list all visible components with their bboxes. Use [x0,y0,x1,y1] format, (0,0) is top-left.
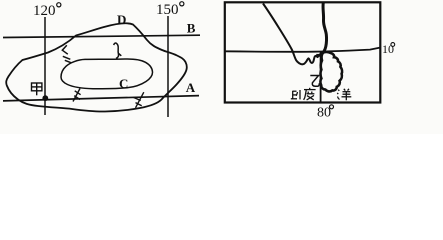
label du (Chinese char of Indian Ocean) [304,88,316,100]
Sri Lanka island [320,52,342,91]
label 120 degrees [33,3,61,19]
label yang (Chinese char of Indian Ocean) [337,89,351,101]
island outline (outer closed curve) [6,23,187,111]
parallel 10N line [225,48,380,52]
node dot at intersection of 120E meridian and lower parallel [42,95,48,101]
svg-text:10: 10 [382,42,394,56]
east coast of India (thick wavy line) [316,3,327,56]
svg-text:C: C [119,76,128,91]
label 80 degrees [317,105,334,121]
inner contour line [61,59,153,89]
svg-text:A: A [186,80,196,95]
svg-text:120: 120 [33,3,56,19]
meridian 80E [320,52,322,102]
label yin (Chinese char of Indian Ocean) [291,90,300,99]
svg-text:B: B [187,21,196,36]
river mark 3 (SW river with two forks) [73,89,81,102]
meridian 120E (left vertical line) [44,17,46,115]
river mark 1 (NW river with fork) [62,45,71,63]
upper parallel line (B) [3,35,200,37]
label 150 degrees [156,2,184,18]
meridian 150E (right vertical line) [167,16,169,117]
svg-text:150: 150 [156,2,179,18]
west coast of India [263,4,319,65]
river mark 2 (north river) [114,43,122,58]
river mark 4 (south river with fork) [133,92,143,108]
lower parallel line (A) [3,96,199,101]
map frame border (right map) [225,2,380,102]
svg-text:80: 80 [317,106,331,121]
label 10 degrees [382,42,395,56]
svg-text:D: D [117,12,126,27]
label yi (Chinese 'second') [310,76,319,87]
jia character (Chinese 'first') [32,83,42,95]
